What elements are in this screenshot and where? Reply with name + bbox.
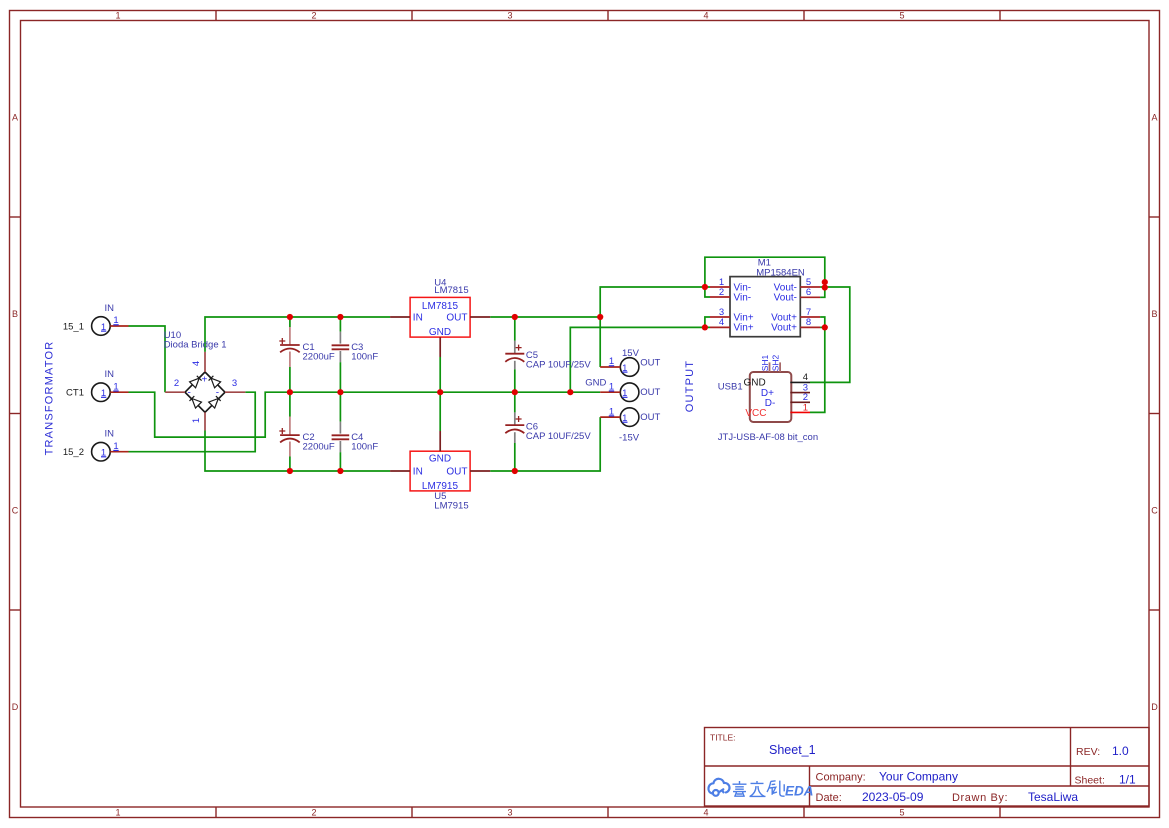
svg-text:-: - bbox=[216, 388, 219, 399]
wire U5 OUT rail to -15V output bbox=[490, 417, 600, 471]
svg-text:CAP 10UF/25V: CAP 10UF/25V bbox=[526, 360, 591, 371]
svg-text:1.0: 1.0 bbox=[1112, 744, 1129, 758]
svg-text:OUT: OUT bbox=[640, 387, 660, 398]
svg-text:IN: IN bbox=[105, 429, 115, 440]
USB1 pin 2 bbox=[790, 401, 810, 403]
wire M1 pin5 to USB pin4 GND bbox=[810, 287, 850, 382]
svg-text:CAP 10UF/25V: CAP 10UF/25V bbox=[526, 431, 591, 442]
svg-text:1: 1 bbox=[803, 402, 808, 413]
svg-text:MP1584EN: MP1584EN bbox=[756, 267, 805, 278]
capacitor C6 bbox=[505, 392, 591, 471]
svg-text:Your Company: Your Company bbox=[879, 770, 958, 784]
wire CT1 to mid GND rail bbox=[129, 392, 601, 437]
capacitor C3 bbox=[332, 317, 379, 392]
wire bridge pin3 to 15_2 bbox=[129, 392, 256, 452]
svg-text:B: B bbox=[1151, 309, 1157, 319]
wire bridge pin4 to top rail to U4 IN bbox=[205, 317, 390, 352]
M1 pin 8 bbox=[800, 326, 820, 328]
svg-text:2: 2 bbox=[174, 378, 179, 389]
svg-text:LM7915: LM7915 bbox=[434, 501, 468, 512]
svg-text:EDA: EDA bbox=[785, 784, 814, 799]
svg-text:4: 4 bbox=[703, 11, 708, 21]
connector 15V OUT output port bbox=[600, 348, 660, 376]
svg-text:15V: 15V bbox=[622, 348, 640, 359]
svg-text:2023-05-09: 2023-05-09 bbox=[862, 790, 924, 804]
svg-text:LM7815: LM7815 bbox=[434, 285, 468, 296]
capacitor C4 bbox=[332, 392, 379, 471]
U10 pin 4 bbox=[204, 352, 206, 372]
svg-text:C: C bbox=[12, 506, 19, 516]
U4 pin OUT bbox=[470, 316, 490, 318]
svg-text:100nF: 100nF bbox=[351, 442, 378, 453]
capacitor C5 bbox=[505, 317, 591, 392]
svg-text:IN: IN bbox=[105, 303, 115, 314]
capacitor C1 bbox=[279, 317, 335, 392]
EasyEDA logo cloud bbox=[708, 779, 729, 796]
svg-text:Company:: Company: bbox=[816, 772, 866, 784]
svg-text:Dioda Bridge 1: Dioda Bridge 1 bbox=[164, 340, 227, 351]
svg-text:OUTPUT: OUTPUT bbox=[684, 360, 696, 412]
M1 pin 2 bbox=[710, 296, 730, 298]
U10 diode bottom-right bbox=[209, 396, 221, 408]
USB1 pin 3 bbox=[790, 392, 810, 394]
svg-text:Vout+: Vout+ bbox=[771, 322, 797, 333]
svg-text:IN: IN bbox=[413, 313, 423, 324]
wire bridge pin1 to bottom rail to U5 IN bbox=[205, 431, 390, 472]
M1 pin numbers bbox=[719, 277, 811, 328]
svg-text:GND: GND bbox=[429, 327, 451, 338]
svg-text:D: D bbox=[1151, 702, 1158, 712]
svg-text:-15V: -15V bbox=[619, 433, 640, 444]
EasyEDA logo text JiaLiChuang (approximated strokes) bbox=[733, 781, 785, 797]
svg-text:5: 5 bbox=[899, 808, 904, 818]
capacitor C2 bbox=[279, 392, 335, 471]
wire +15V riser to M1 pin1 bbox=[600, 287, 710, 317]
connector GND OUT output port bbox=[585, 378, 660, 402]
svg-text:Sheet_1: Sheet_1 bbox=[769, 743, 816, 757]
wire U5 GND to mid rail bbox=[439, 392, 441, 431]
U10 pin 1 bbox=[204, 412, 206, 430]
op-amp U4 regulator LM7815 box bbox=[410, 297, 470, 338]
svg-text:TRANSFORMATOR: TRANSFORMATOR bbox=[44, 341, 56, 456]
wire GND riser to M1 Vin+ bbox=[570, 327, 710, 392]
M1 pin 7 bbox=[800, 316, 820, 318]
svg-text:-: - bbox=[188, 388, 191, 399]
U10 pin numbers bbox=[174, 361, 237, 423]
connector 15_1 input port bbox=[63, 303, 129, 335]
svg-text:OUT: OUT bbox=[446, 467, 467, 478]
svg-text:1: 1 bbox=[191, 418, 202, 423]
U5 pin GND bbox=[439, 431, 441, 451]
op-amp U5 regulator LM7915 box bbox=[410, 451, 470, 492]
U10 diode top-left bbox=[190, 376, 202, 388]
svg-text:B: B bbox=[12, 309, 18, 319]
wire 15V output drop bbox=[599, 317, 601, 367]
wire 15_1 to bridge pin2 bbox=[129, 326, 166, 392]
USB1 pin 4 GND bbox=[790, 381, 810, 383]
USB1 shield labels bbox=[760, 354, 781, 371]
connector 15_2 input port bbox=[63, 429, 129, 461]
svg-text:GND: GND bbox=[429, 454, 451, 465]
svg-text:2: 2 bbox=[311, 11, 316, 21]
svg-text:IN: IN bbox=[105, 369, 115, 380]
junction dots bbox=[287, 279, 828, 474]
USB1 shield pin SH2 bbox=[779, 362, 781, 372]
svg-text:Sheet:: Sheet: bbox=[1075, 775, 1105, 787]
svg-text:5: 5 bbox=[899, 11, 904, 21]
svg-text:4: 4 bbox=[719, 317, 724, 328]
wire M1 Vin- loop pin2 to pin6 bbox=[705, 257, 825, 297]
svg-text:SH2: SH2 bbox=[771, 354, 781, 371]
M1 pin 6 bbox=[800, 296, 820, 298]
USB1 shield pin SH1 bbox=[769, 362, 771, 372]
diode-bridge U10 bbox=[185, 372, 225, 412]
svg-text:TesaLiwa: TesaLiwa bbox=[1028, 790, 1078, 804]
connector -15V OUT output port bbox=[600, 406, 660, 443]
U4 pin GND bbox=[439, 337, 441, 357]
svg-text:2: 2 bbox=[311, 808, 316, 818]
U5 pin OUT bbox=[470, 470, 490, 472]
M1 pin 4 bbox=[710, 326, 730, 328]
USB1 labels bbox=[718, 382, 818, 444]
USB1 pin 1 VCC bbox=[790, 411, 810, 413]
svg-text:VCC: VCC bbox=[745, 408, 766, 419]
U10 reference labels bbox=[164, 330, 227, 351]
svg-text:GND: GND bbox=[585, 378, 606, 389]
svg-text:4: 4 bbox=[703, 808, 708, 818]
U5 pin IN bbox=[390, 470, 410, 472]
svg-text:6: 6 bbox=[806, 287, 811, 298]
U5 labels bbox=[434, 491, 468, 512]
svg-text:D: D bbox=[12, 702, 19, 712]
title block texts bbox=[710, 733, 1136, 805]
svg-text:1/1: 1/1 bbox=[1119, 773, 1136, 787]
M1 labels bbox=[756, 257, 805, 278]
svg-text:2: 2 bbox=[719, 287, 724, 298]
module M1 MP1584EN box bbox=[730, 277, 800, 337]
U4 pin IN bbox=[390, 316, 410, 318]
wire U4 OUT rail bbox=[490, 316, 600, 318]
M1 pin 5 bbox=[800, 286, 820, 288]
svg-text:A: A bbox=[12, 113, 18, 123]
svg-text:1: 1 bbox=[115, 808, 120, 818]
svg-text:OUT: OUT bbox=[640, 412, 660, 423]
svg-text:+: + bbox=[202, 375, 208, 386]
svg-text:C: C bbox=[1151, 506, 1158, 516]
M1 pin 1 bbox=[710, 286, 730, 288]
wire M1 pin7 to USB pin1 VCC bbox=[810, 317, 825, 412]
svg-text:A: A bbox=[1151, 113, 1157, 123]
svg-text:3: 3 bbox=[232, 378, 237, 389]
svg-text:JTJ-USB-AF-08 bit_con: JTJ-USB-AF-08 bit_con bbox=[718, 432, 818, 443]
svg-text:2200uF: 2200uF bbox=[303, 352, 335, 363]
svg-text:SH1: SH1 bbox=[760, 354, 770, 371]
svg-text:Vout-: Vout- bbox=[774, 293, 797, 304]
U4 labels bbox=[434, 278, 468, 297]
U10 diode top-right bbox=[209, 376, 221, 388]
U10 diode bottom-left bbox=[190, 396, 202, 408]
wire U4 GND to mid rail bbox=[439, 357, 441, 392]
svg-text:Vin-: Vin- bbox=[734, 293, 752, 304]
USB1 pin numbers bbox=[803, 372, 808, 413]
svg-text:2200uF: 2200uF bbox=[303, 442, 335, 453]
U10 pin 2 bbox=[165, 391, 185, 393]
svg-text:100nF: 100nF bbox=[351, 352, 378, 363]
wire M1 pin8 join bbox=[820, 326, 825, 328]
USB connector USB1 box bbox=[744, 372, 792, 422]
svg-text:Vin+: Vin+ bbox=[734, 322, 754, 333]
svg-text:Date:: Date: bbox=[816, 792, 842, 804]
svg-text:Drawn By:: Drawn By: bbox=[952, 792, 1008, 804]
M1 pin 3 bbox=[710, 316, 730, 318]
svg-text:OUT: OUT bbox=[446, 313, 467, 324]
svg-text:CT1: CT1 bbox=[66, 388, 84, 399]
connector CT1 input port bbox=[66, 369, 128, 401]
U10 polarity marks bbox=[188, 375, 220, 399]
svg-text:LM7815: LM7815 bbox=[422, 301, 459, 312]
svg-text:TITLE:: TITLE: bbox=[710, 733, 736, 743]
TITLE_BLOCK bbox=[705, 728, 1150, 807]
svg-text:REV:: REV: bbox=[1076, 746, 1100, 758]
svg-text:4: 4 bbox=[191, 361, 202, 366]
svg-text:3: 3 bbox=[507, 808, 512, 818]
svg-text:15_2: 15_2 bbox=[63, 447, 84, 458]
svg-text:OUT: OUT bbox=[640, 358, 660, 369]
svg-text:15_1: 15_1 bbox=[63, 322, 84, 333]
svg-text:1: 1 bbox=[115, 11, 120, 21]
svg-text:IN: IN bbox=[413, 467, 423, 478]
wire M1 pin3 drop bbox=[705, 317, 710, 327]
U10 pin 3 bbox=[225, 391, 245, 393]
svg-text:3: 3 bbox=[507, 11, 512, 21]
svg-text:8: 8 bbox=[806, 317, 811, 328]
svg-text:USB1: USB1 bbox=[718, 382, 743, 393]
